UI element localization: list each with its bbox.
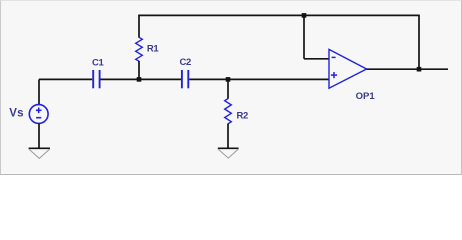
wire top feedback horizontal [138,14,420,16]
wire main line Vs to C1 [39,78,92,80]
junction node on output wire [417,67,422,72]
svg-text:Vs: Vs [9,107,23,119]
source Vs [29,105,48,124]
wire feedback left vertical [303,15,305,58]
wire C1 to C2 [101,78,182,80]
op-amp U1 triangle [329,49,367,88]
wire R2 top vertical [227,79,229,98]
wire feedback right vertical [418,15,420,69]
svg-text:OP1: OP1 [356,91,376,102]
wire R1 top vertical [138,15,140,37]
wire R1 bottom vertical [138,61,140,79]
ground of R2 [218,148,239,158]
svg-text:R2: R2 [237,110,248,121]
junction node at R2 top [226,77,231,82]
svg-text:R1: R1 [147,43,159,54]
wire Vs bottom vertical [38,124,40,149]
capacitor C1 [93,70,99,88]
junction node at R1 bottom [137,77,142,82]
junction node on top feedback wire [302,13,307,18]
wire Vs top vertical [38,79,40,104]
svg-text:C2: C2 [180,57,191,68]
wire R2 bottom vertical [227,124,229,149]
wire op-amp output [367,68,448,70]
resistor R2 [225,99,232,124]
wire op-amp minus input [304,58,329,60]
resistor R1 [136,37,143,61]
capacitor C2 [182,70,188,88]
wire C2 to op-amp plus input [189,78,329,80]
svg-text:C1: C1 [92,57,104,68]
ground of Vs [29,148,50,158]
